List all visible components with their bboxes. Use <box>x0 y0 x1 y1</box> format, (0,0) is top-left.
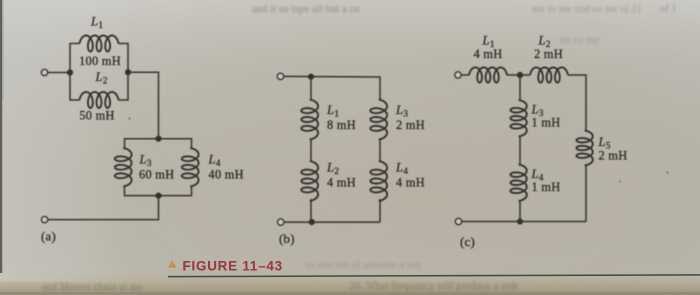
junction dot top (b) <box>308 74 314 80</box>
junction dot bottom of loop2 (a) <box>155 193 161 199</box>
top wire (b) <box>284 76 380 99</box>
inductor L2 50 mH (a) <box>80 92 119 108</box>
inductor L1 100 mH (a) <box>80 36 119 52</box>
wire parallel loop frame L3/L4 (a) <box>125 139 192 196</box>
inductor L4 4 mH (b) <box>370 161 387 201</box>
right branch lower wire (c) <box>585 166 587 222</box>
inductor L3 60 mH (a) <box>115 148 132 187</box>
node dot between L1 and L2 (c) <box>517 72 523 78</box>
caption triangle marker <box>168 260 177 267</box>
terminal A-top (a) <box>41 69 47 75</box>
wire loop2 to bottom terminal (a) <box>48 196 159 220</box>
inductor L2 2 mH (c) <box>530 67 568 82</box>
ink speck right margin <box>666 171 668 173</box>
inductor L4 40 mH (a) <box>182 148 199 187</box>
wire parallel loop frame L1/L2 (a) <box>70 44 128 101</box>
cool light left column <box>0 0 1 1</box>
dark photo edge bottom <box>0 292 700 295</box>
inductor L4 1 mH (c) <box>510 165 526 202</box>
ink speck right of L5 label <box>619 181 621 183</box>
inductor L3 2 mH (b) <box>370 100 387 140</box>
inductor L1 8 mH (b) <box>301 100 318 140</box>
inductor L1 4 mH (c) <box>469 67 507 82</box>
junction dot bottom (b) <box>309 219 315 225</box>
middle branch wire mid (c) <box>519 137 521 165</box>
terminal C-bottom (c) <box>455 218 461 224</box>
bottom wire (b) <box>284 199 380 222</box>
inductor L3 1 mH (c) <box>510 100 526 137</box>
inductor L5 2 mH (c) <box>576 131 592 166</box>
wire mid segments (b) <box>311 140 380 162</box>
wire right node down to loop2 (a) <box>128 72 159 139</box>
wire terminal to node (a) <box>48 72 70 74</box>
terminal B-bottom (b) <box>278 219 284 225</box>
junction dot top of loop2 (a) <box>155 136 161 142</box>
node dot left (a) <box>67 69 73 75</box>
wire between L1 and L2 (c) <box>507 74 530 76</box>
warm photo cast <box>0 0 1 1</box>
ink speck near 50 mH <box>129 118 131 120</box>
middle branch wire lower (c) <box>519 201 521 222</box>
inductor L2 4 mH (b) <box>301 161 318 201</box>
terminal C-top (c) <box>455 72 461 78</box>
top wire left (c) <box>461 74 469 76</box>
junction dot bottom middle (c) <box>517 218 523 224</box>
top wire right + right branch (c) <box>568 75 586 131</box>
terminal A-bottom (a) <box>42 217 48 223</box>
caption rule <box>168 275 700 277</box>
bottom tan band <box>0 266 700 295</box>
terminal B-top (b) <box>277 73 283 79</box>
bottom wire (c) <box>462 221 586 223</box>
dark photo edge left <box>0 0 2 273</box>
node dot right (a) <box>125 69 131 75</box>
middle branch wire upper (c) <box>519 75 521 100</box>
